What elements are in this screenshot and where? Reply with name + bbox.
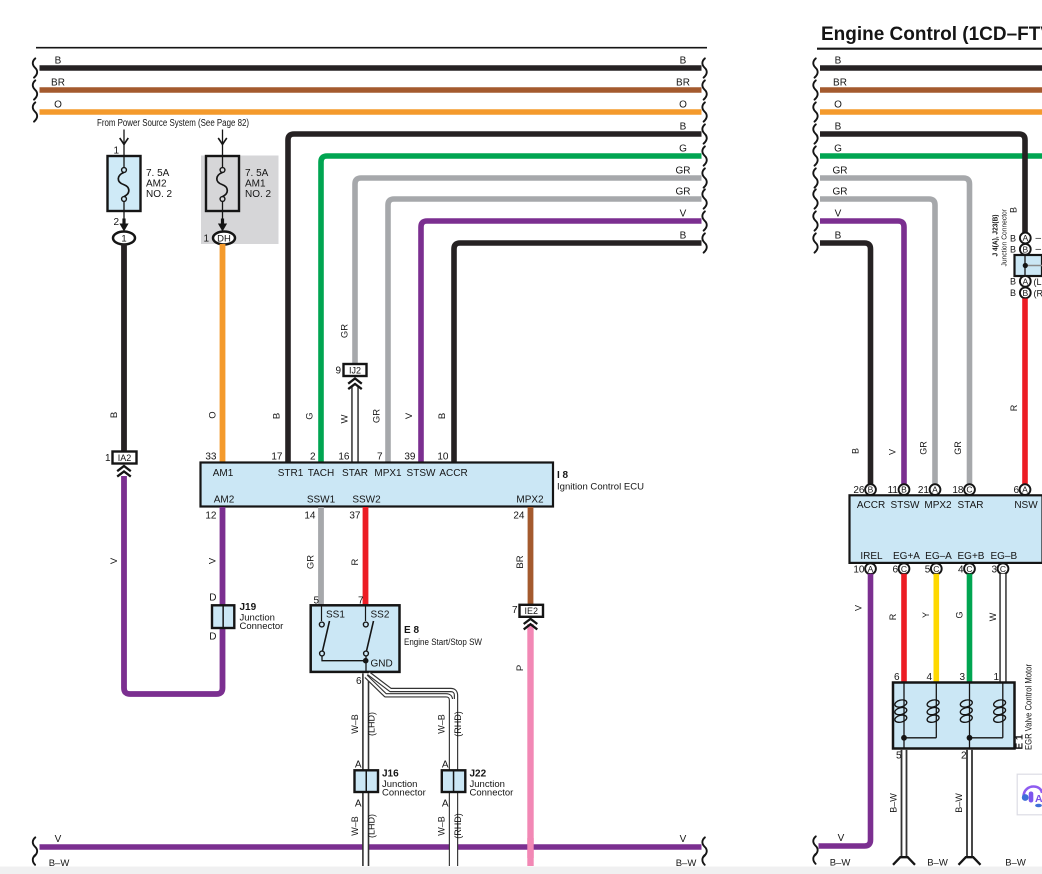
svg-text:IREL: IREL bbox=[860, 551, 883, 562]
svg-text:W: W bbox=[988, 612, 998, 621]
svg-text:B: B bbox=[835, 231, 842, 242]
svg-text:B: B bbox=[680, 231, 687, 242]
svg-text:B: B bbox=[868, 485, 874, 495]
svg-text:V: V bbox=[854, 605, 864, 611]
wire V from ECU pin 10 IREL to bottom bus bbox=[819, 574, 871, 846]
svg-text:B: B bbox=[1010, 277, 1016, 287]
svg-text:MPX2: MPX2 bbox=[924, 500, 952, 511]
svg-text:W–B: W–B bbox=[350, 714, 360, 734]
svg-text:NO. 2: NO. 2 bbox=[146, 189, 173, 200]
svg-text:(RHD): (RHD) bbox=[453, 711, 463, 737]
svg-text:O: O bbox=[834, 100, 842, 111]
svg-text:EG–A: EG–A bbox=[925, 551, 952, 562]
svg-text:7: 7 bbox=[377, 452, 383, 463]
svg-text:–: – bbox=[1036, 244, 1042, 255]
bus wire V bottom left panel bbox=[40, 844, 702, 849]
node junction dot coils 3-4 bbox=[970, 737, 1003, 739]
svg-text:5: 5 bbox=[925, 565, 931, 576]
svg-text:W–B: W–B bbox=[437, 816, 447, 836]
svg-text:EG–B: EG–B bbox=[990, 551, 1017, 562]
wire B bus to junction connector J4 bbox=[820, 134, 1025, 233]
wire Y from ECU pin 5 EG-A to EGR motor bbox=[933, 574, 939, 683]
svg-text:BR: BR bbox=[51, 78, 65, 89]
svg-text:GR: GR bbox=[676, 166, 691, 177]
svg-text:DH: DH bbox=[217, 233, 231, 244]
svg-text:B: B bbox=[680, 56, 687, 67]
svg-text:(RH: (RH bbox=[1034, 289, 1042, 299]
svg-text:IE2: IE2 bbox=[524, 606, 538, 616]
svg-text:I 8: I 8 bbox=[557, 470, 569, 481]
wire GR bus to ECU pin 7 MPX1 bbox=[388, 199, 702, 462]
svg-text:12: 12 bbox=[205, 511, 217, 522]
wire W-B LHD from switch GND down bbox=[362, 673, 369, 866]
connector 1 below fuse AM2 bbox=[113, 232, 135, 245]
svg-text:B: B bbox=[680, 122, 687, 133]
svg-text:BR: BR bbox=[833, 78, 847, 89]
svg-text:NSW: NSW bbox=[1014, 500, 1038, 511]
svg-text:B: B bbox=[109, 412, 120, 418]
svg-text:J16: J16 bbox=[382, 769, 399, 780]
wire GR bus to ECU pin 21 MPX2 bbox=[820, 199, 935, 485]
svg-text:B: B bbox=[901, 485, 907, 495]
svg-text:EGR Valve Control Motor: EGR Valve Control Motor bbox=[1024, 664, 1034, 750]
svg-text:TACH: TACH bbox=[308, 468, 334, 479]
svg-text:J19: J19 bbox=[240, 602, 257, 613]
wire W-B RHD branch from switch GND bbox=[369, 673, 457, 866]
svg-text:SS2: SS2 bbox=[371, 610, 390, 621]
svg-text:A: A bbox=[442, 799, 449, 810]
bus wire BR right panel bbox=[820, 87, 1042, 93]
svg-text:BR: BR bbox=[676, 78, 690, 89]
svg-text:R: R bbox=[1009, 404, 1019, 411]
svg-text:V: V bbox=[888, 449, 898, 455]
svg-text:B: B bbox=[851, 448, 861, 454]
svg-text:G: G bbox=[834, 144, 842, 155]
wire O from connector DH to ECU pin 33 AM1 bbox=[220, 244, 226, 462]
switch SS2 contact bbox=[365, 605, 367, 621]
svg-text:ACCR: ACCR bbox=[439, 468, 467, 479]
wire GR bus to ECU pin 18 STAR bbox=[820, 178, 970, 485]
svg-text:C: C bbox=[901, 564, 907, 574]
coil L4 in EGR motor bbox=[1002, 683, 1004, 738]
svg-text:6: 6 bbox=[356, 676, 362, 687]
svg-text:B: B bbox=[1010, 234, 1016, 244]
svg-text:D: D bbox=[209, 632, 216, 643]
svg-text:(LHD): (LHD) bbox=[367, 712, 377, 736]
svg-text:V: V bbox=[404, 412, 415, 419]
svg-text:GR: GR bbox=[833, 166, 848, 177]
wire R from ECU pin 6 EG+A to EGR motor bbox=[901, 574, 907, 683]
svg-text:STSW: STSW bbox=[891, 500, 920, 511]
svg-text:A: A bbox=[355, 799, 362, 810]
svg-text:V: V bbox=[835, 209, 842, 220]
svg-text:C: C bbox=[1000, 564, 1006, 574]
coil L2 in EGR motor bbox=[935, 683, 937, 738]
svg-text:16: 16 bbox=[338, 452, 350, 463]
svg-text:A: A bbox=[1022, 233, 1028, 243]
wire thin top line bbox=[36, 47, 707, 49]
svg-text:24: 24 bbox=[513, 511, 525, 522]
svg-text:GR: GR bbox=[306, 555, 317, 569]
bus wire G right panel bbox=[820, 153, 1042, 159]
svg-text:ACCR: ACCR bbox=[857, 500, 885, 511]
wire B from fuse AM2 to IA2 bbox=[121, 244, 127, 451]
node GND junction dot in E8 bbox=[363, 658, 369, 664]
svg-text:B: B bbox=[835, 122, 842, 133]
svg-text:G: G bbox=[305, 412, 316, 419]
coil L1 in EGR motor bbox=[903, 683, 905, 738]
svg-text:A: A bbox=[355, 760, 362, 771]
svg-text:D: D bbox=[209, 593, 216, 604]
svg-text:14: 14 bbox=[304, 511, 316, 522]
svg-text:B: B bbox=[1010, 245, 1016, 255]
wire V from ECU pin 12 AM2 through J19 to IA2 bbox=[124, 476, 223, 694]
svg-text:O: O bbox=[208, 411, 219, 418]
svg-text:W–B: W–B bbox=[350, 816, 360, 836]
svg-text:3: 3 bbox=[991, 565, 997, 576]
svg-text:W: W bbox=[340, 414, 351, 423]
svg-text:AM2: AM2 bbox=[214, 495, 235, 506]
wire B bus to ECU pin 17 STR1 bbox=[288, 134, 702, 462]
svg-text:1: 1 bbox=[121, 233, 126, 244]
wire B bus to ECU pin 26 ACCR bbox=[820, 243, 871, 485]
svg-text:SSW2: SSW2 bbox=[352, 495, 381, 506]
svg-text:17: 17 bbox=[271, 452, 283, 463]
svg-text:From Power Source System (See: From Power Source System (See Page 82) bbox=[97, 118, 249, 129]
svg-text:G: G bbox=[679, 144, 687, 155]
svg-text:EG+A: EG+A bbox=[893, 551, 920, 562]
svg-text:GR: GR bbox=[919, 441, 929, 455]
wire GR from ECU pin 14 SSW1 to switch pin 5 bbox=[318, 507, 324, 605]
wire B-W from EGR pin 5 to ground bbox=[901, 750, 908, 857]
svg-text:1: 1 bbox=[203, 234, 209, 245]
wire V bus to ECU pin 11 STSW bbox=[820, 221, 904, 485]
switch E8 Engine Start/Stop SW box bbox=[311, 605, 400, 672]
svg-text:STAR: STAR bbox=[342, 468, 368, 479]
bus wire O left panel bbox=[40, 109, 702, 115]
svg-text:(LH: (LH bbox=[1034, 277, 1042, 287]
svg-text:6: 6 bbox=[892, 565, 898, 576]
svg-text:O: O bbox=[54, 100, 62, 111]
svg-text:P: P bbox=[515, 665, 526, 671]
svg-text:A: A bbox=[868, 564, 874, 574]
svg-text:37: 37 bbox=[349, 511, 361, 522]
svg-text:GR: GR bbox=[676, 187, 691, 198]
svg-text:33: 33 bbox=[205, 452, 217, 463]
svg-text:STSW: STSW bbox=[407, 468, 436, 479]
svg-text:A: A bbox=[1035, 793, 1042, 805]
svg-text:A: A bbox=[1022, 276, 1028, 286]
svg-text:SSW1: SSW1 bbox=[307, 495, 336, 506]
svg-text:Connector: Connector bbox=[240, 621, 284, 632]
switch SS1 contact bbox=[321, 605, 323, 621]
svg-text:Connector: Connector bbox=[382, 788, 426, 799]
svg-text:EG+B: EG+B bbox=[958, 551, 985, 562]
svg-text:10: 10 bbox=[853, 565, 865, 576]
wire G from ECU pin 4 EG+B to EGR motor bbox=[967, 574, 973, 683]
svg-text:A: A bbox=[442, 760, 449, 771]
svg-text:Y: Y bbox=[921, 612, 931, 618]
svg-text:V: V bbox=[109, 557, 120, 564]
svg-text:GND: GND bbox=[371, 659, 393, 670]
svg-text:V: V bbox=[208, 557, 219, 564]
svg-text:AM1: AM1 bbox=[213, 468, 234, 479]
wire R from J4 to ECU pin 6 NSW bbox=[1022, 299, 1028, 485]
svg-text:BR: BR bbox=[515, 555, 526, 568]
svg-text:MPX2: MPX2 bbox=[516, 495, 544, 506]
svg-text:GR: GR bbox=[372, 409, 383, 423]
svg-text:J22: J22 bbox=[470, 769, 487, 780]
wire W shielded from IJ2 to ECU pin 16 STAR bbox=[351, 387, 359, 462]
ground splice right bbox=[959, 857, 981, 865]
svg-text:A: A bbox=[932, 485, 938, 495]
wire P pink over V bus crossing bbox=[527, 838, 533, 858]
svg-text:(LHD): (LHD) bbox=[367, 814, 377, 838]
svg-text:C: C bbox=[966, 564, 972, 574]
wire G bus to ECU pin 2 TACH bbox=[321, 156, 702, 462]
bus label V bottom right panel bbox=[813, 836, 817, 855]
svg-text:J 4(A), J23(B): J 4(A), J23(B) bbox=[991, 214, 1000, 256]
wire P pink from IE2 down across page bbox=[527, 624, 533, 866]
op-amp right Engine Control ECU box bbox=[850, 495, 1042, 563]
wire W from ECU pin 3 EG-B to EGR motor bbox=[999, 574, 1006, 683]
wire GR bus to connector IJ2 bbox=[355, 178, 702, 364]
node junction dot coils 1-2 bbox=[904, 737, 936, 739]
svg-text:(RHD): (RHD) bbox=[453, 813, 463, 839]
svg-text:39: 39 bbox=[404, 452, 416, 463]
svg-text:NO. 2: NO. 2 bbox=[245, 189, 272, 200]
svg-text:STAR: STAR bbox=[958, 500, 984, 511]
svg-text:IJ2: IJ2 bbox=[349, 365, 361, 375]
wire V bus to ECU pin 39 STSW bbox=[421, 221, 702, 462]
wire R from ECU pin 37 SSW2 to switch pin 7 bbox=[363, 507, 369, 605]
svg-text:B: B bbox=[1022, 288, 1028, 298]
svg-text:B: B bbox=[835, 56, 842, 67]
svg-text:R: R bbox=[888, 613, 898, 620]
svg-text:E 8: E 8 bbox=[404, 625, 419, 636]
svg-text:2: 2 bbox=[113, 217, 119, 228]
svg-text:AM1: AM1 bbox=[245, 179, 266, 190]
svg-text:1: 1 bbox=[105, 453, 111, 464]
svg-text:Junction Connector: Junction Connector bbox=[999, 209, 1008, 267]
bus wire B left panel bbox=[40, 65, 702, 71]
svg-text:R: R bbox=[350, 558, 361, 565]
svg-text:–: – bbox=[1036, 233, 1042, 244]
svg-text:IA2: IA2 bbox=[118, 453, 132, 463]
wire B-W from EGR pin 2 to ground bbox=[966, 750, 973, 857]
bus wire O right panel bbox=[820, 109, 1042, 115]
svg-text:B: B bbox=[272, 413, 283, 419]
svg-text:B: B bbox=[1022, 244, 1028, 254]
svg-text:Engine Start/Stop SW: Engine Start/Stop SW bbox=[404, 637, 482, 648]
svg-text:V: V bbox=[680, 834, 687, 845]
svg-text:2: 2 bbox=[961, 751, 967, 762]
svg-text:O: O bbox=[679, 100, 687, 111]
svg-text:B: B bbox=[55, 56, 62, 67]
svg-text:7: 7 bbox=[512, 605, 518, 616]
wire B bus to ECU pin 10 ACCR bbox=[454, 243, 702, 462]
svg-text:Engine Control (1CD–FTV: Engine Control (1CD–FTV bbox=[821, 24, 1042, 45]
svg-text:AM2: AM2 bbox=[146, 179, 167, 190]
svg-text:10: 10 bbox=[437, 452, 449, 463]
svg-text:2: 2 bbox=[310, 452, 316, 463]
svg-text:9: 9 bbox=[335, 366, 341, 377]
svg-text:7. 5A: 7. 5A bbox=[146, 168, 170, 179]
svg-text:C: C bbox=[966, 485, 972, 495]
svg-text:V: V bbox=[838, 833, 845, 844]
svg-text:SS1: SS1 bbox=[326, 610, 345, 621]
svg-text:B: B bbox=[1009, 207, 1019, 213]
svg-text:A: A bbox=[1022, 485, 1028, 495]
svg-text:B: B bbox=[437, 413, 448, 419]
svg-text:Connector: Connector bbox=[470, 788, 514, 799]
svg-text:MPX1: MPX1 bbox=[374, 468, 402, 479]
svg-text:Ignition Control ECU: Ignition Control ECU bbox=[557, 482, 644, 493]
svg-text:W–B: W–B bbox=[437, 714, 447, 734]
wire BR from ECU pin 24 MPX2 to IE2 bbox=[528, 507, 534, 605]
svg-text:GR: GR bbox=[340, 324, 351, 338]
fuse AM1 7.5A NO.2 F2 bbox=[222, 130, 224, 157]
svg-text:GR: GR bbox=[833, 187, 848, 198]
gray highlight box around fuse AM1 bbox=[201, 156, 279, 245]
fuse AM2 7.5A NO.2 F1 bbox=[123, 130, 125, 157]
motor E1 EGR Valve Control Motor box bbox=[893, 683, 1015, 749]
svg-text:STR1: STR1 bbox=[278, 468, 304, 479]
bus wire BR left panel bbox=[40, 87, 702, 93]
op-amp I8 Ignition Control ECU box bbox=[201, 463, 554, 507]
coil L3 in EGR motor bbox=[969, 683, 971, 738]
svg-text:4: 4 bbox=[958, 565, 964, 576]
svg-text:B–W: B–W bbox=[889, 793, 899, 813]
svg-text:B–W: B–W bbox=[954, 793, 964, 813]
support widget logo box bbox=[1017, 774, 1042, 815]
svg-text:V: V bbox=[680, 209, 687, 220]
svg-text:7. 5A: 7. 5A bbox=[245, 168, 269, 179]
svg-text:G: G bbox=[955, 611, 965, 618]
svg-text:V: V bbox=[55, 834, 62, 845]
bus wire B right panel bbox=[820, 65, 1042, 71]
svg-text:B: B bbox=[1010, 288, 1016, 298]
svg-text:C: C bbox=[933, 564, 939, 574]
svg-text:GR: GR bbox=[953, 441, 963, 455]
bottom page edge strip bbox=[0, 867, 1042, 874]
ground splice left bbox=[893, 857, 915, 865]
